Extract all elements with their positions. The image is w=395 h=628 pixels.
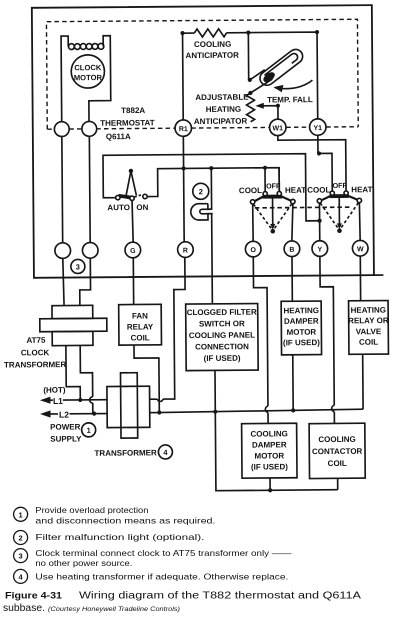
wire Y down [320,256,335,423]
mercury bulb [257,47,305,89]
switch 1 blade [263,195,283,199]
node mercury lead 1 [248,78,252,82]
svg-text:3: 3 [76,262,80,271]
note circle 3 [71,259,85,273]
cooling contactor coil box [309,423,365,478]
resistor cooling anticipator [194,29,226,37]
note 3 [14,549,293,568]
svg-text:CONNECTION: CONNECTION [195,342,249,351]
svg-text:TRANSFORMER: TRANSFORMER [94,448,157,457]
note circle 1 [82,423,96,437]
AT75 secondary right to L2 [80,345,93,413]
node lamp wire junction [209,166,213,170]
svg-text:OFF: OFF [266,181,281,190]
svg-text:THERMOSTAT: THERMOSTAT [100,118,155,127]
switch 2 bar contacts [330,191,334,195]
wire W1 to switch 2 [278,135,346,192]
svg-text:COIL: COIL [131,333,150,342]
wire fan switch AUTO feed [103,154,320,223]
svg-text:W1: W1 [273,125,284,132]
svg-text:COOL: COOL [239,186,262,195]
hop AT75 wire over L1 [90,397,93,403]
fan switch contact common [130,196,134,200]
svg-text:ANTICIPATOR: ANTICIPATOR [186,51,240,60]
svg-text:COIL: COIL [328,459,347,468]
hop Y wire over bus [332,405,335,411]
cooling damper motor box [242,423,297,478]
wire lamp [211,168,212,304]
note 4 [14,569,289,583]
node R wire junction [181,166,185,170]
wiper arrow to W1 [261,106,278,120]
terminal R [178,242,194,258]
fan switch pivot [129,169,133,173]
wire Y1 to switch 2 [318,135,332,191]
system transformer [120,373,137,438]
wire fan ON to R net [147,168,279,197]
svg-text:HEATING: HEATING [283,306,318,315]
node Y junction [317,219,321,223]
svg-text:Clock terminal connect clock t: Clock terminal connect clock to AT75 tra… [35,549,292,558]
svg-text:COOL: COOL [307,185,330,194]
svg-text:1: 1 [19,510,23,519]
outer subbase box [32,5,374,278]
svg-text:L1: L1 [53,396,63,406]
terminal O [245,241,261,257]
clock terminal left [54,122,69,137]
resistor heating anticipator [246,93,254,122]
note 1 [14,506,216,526]
wire fan coil to bus [134,345,159,413]
fan switch dashed blade [134,194,143,197]
node switch1 left feed junction [263,166,267,170]
svg-text:Figure 4-31: Figure 4-31 [5,591,62,601]
svg-text:OFF: OFF [333,181,348,190]
svg-text:TEMP. FALL: TEMP. FALL [267,95,313,104]
wire cooling contactor to bottom bus [337,478,339,489]
wire O [252,204,254,242]
terminal Y [312,241,328,257]
wire heating relay to bus [362,354,364,409]
L2 line [50,413,107,415]
switch 2 actuator [338,198,340,225]
clogged filter box [186,304,259,371]
switch 2 contact COOL [317,199,321,203]
svg-text:CLOCK: CLOCK [74,63,102,72]
svg-text:SWITCH OR: SWITCH OR [199,319,245,328]
svg-text:(IF USED): (IF USED) [251,462,288,471]
fan switch contact ON [143,194,147,198]
svg-text:Wiring diagram of the T882 the: Wiring diagram of the T882 thermostat an… [79,591,361,602]
clock motor coil [69,43,104,49]
wire W down [359,256,361,301]
svg-text:Provide overload protection: Provide overload protection [35,506,148,515]
svg-text:Y1: Y1 [313,125,322,132]
svg-text:DAMPER: DAMPER [284,317,319,326]
switch 1 bar contacts [263,192,267,196]
svg-text:Filter malfunction light (opti: Filter malfunction light (optional). [35,533,204,542]
heat-cool switch 1 feeds [265,168,279,192]
temp fall arrow [275,80,312,89]
fan switch blade [118,194,131,200]
wire R1 top loop [183,32,318,120]
svg-text:(IF USED): (IF USED) [204,354,241,363]
wire heating damper to bus [292,355,294,410]
switch 2 nubs [322,196,357,200]
svg-text:HEAT: HEAT [351,185,372,194]
mercury bulb leads [250,70,273,93]
switch 1 pivot [270,229,275,234]
AT75 secondary left to L1 [66,345,80,400]
note circle 4 [158,445,172,459]
clock motor wire [61,36,111,122]
svg-text:ON: ON [136,203,148,212]
notes [14,506,293,583]
terminal W1 [270,119,287,136]
switch 2 pivot [337,228,342,233]
svg-text:ANTICIPATOR: ANTICIPATOR [194,117,248,126]
caption [3,591,361,615]
note 2 [14,531,205,545]
wire B down [291,257,293,302]
svg-text:Use heating transformer if ade: Use heating transformer if adequate. Oth… [35,573,288,582]
svg-text:FAN: FAN [132,311,148,320]
svg-text:no other power source.: no other power source. [35,559,132,568]
wire clock2 to AT75 [79,258,90,305]
terminal clock 1 [55,243,71,259]
svg-text:subbase.: subbase. [3,603,45,614]
svg-text:2: 2 [19,534,23,543]
svg-text:COOLING: COOLING [194,40,231,49]
clock motor circle [71,55,104,88]
svg-text:HEAT: HEAT [285,186,306,195]
svg-text:L2: L2 [59,410,69,420]
switch 1 actuator line [272,198,274,225]
label T882A THERMOSTAT Q611A [100,106,155,141]
heating damper motor box [281,301,321,355]
terminal W [352,240,368,256]
label adjustable heating anticipator [194,93,250,126]
svg-text:(Courtesy Honeywell Tradeline: (Courtesy Honeywell Tradeline Controls) [48,606,180,613]
terminal Y1 [310,119,327,136]
svg-text:Q611A: Q611A [106,132,131,141]
svg-text:HEATING: HEATING [206,105,241,114]
svg-text:CLOGGED FILTER: CLOGGED FILTER [187,308,257,318]
wire clogged filter to bus [215,369,338,490]
svg-text:MOTOR: MOTOR [287,328,317,337]
wire R1 to R [182,136,185,242]
switch 1 dashed arms [253,204,292,229]
svg-text:R1: R1 [179,126,188,133]
svg-text:2: 2 [199,187,203,196]
wire switch2 COOL to Y [318,203,320,241]
svg-text:G: G [130,248,136,255]
hop R wire over fan wire [157,399,163,401]
svg-text:COIL: COIL [359,338,378,347]
node dots top wire [180,30,319,35]
svg-text:(IF USED): (IF USED) [283,338,320,347]
switch 1 nubs [255,196,291,201]
switch 2 contact HEAT [357,198,361,202]
svg-text:4: 4 [19,572,24,581]
wire R to transformer [148,257,185,399]
svg-text:ADJUSTABLE: ADJUSTABLE [195,93,249,102]
svg-text:COOLING: COOLING [318,435,355,444]
AT75 transformer [52,305,93,318]
secondary bus [150,409,363,412]
switch 1 contact COOL [250,200,254,204]
svg-text:COOLING PANEL: COOLING PANEL [189,331,255,341]
svg-text:RELAY: RELAY [127,322,154,331]
svg-text:1: 1 [87,426,91,435]
switch 1 contact HEAT [291,199,295,203]
L1 line [50,399,107,401]
wire cooling anticipator to mercury [247,33,249,80]
wire B [292,204,294,242]
switch 2 dashed arms [320,203,358,229]
fan switch contact AUTO [116,195,120,199]
terminal R1 [175,120,192,137]
svg-text:TRANSFORMER: TRANSFORMER [4,360,67,369]
filter lamp callout circle 2 [193,183,209,199]
clock terminal right [82,121,97,136]
svg-text:VALVE: VALVE [356,327,382,336]
terminal G [125,242,141,258]
wire common to G [132,200,133,242]
svg-text:MOTOR: MOTOR [74,73,103,82]
wire O down [253,257,268,424]
filter lamp symbol [191,204,213,220]
svg-text:DAMPER: DAMPER [252,440,287,449]
svg-text:AT75: AT75 [26,336,46,345]
node mercury lead 2 [248,91,252,95]
wire clock terminals down [62,136,90,243]
svg-text:Y: Y [317,247,322,254]
svg-text:COOLING: COOLING [250,429,287,438]
svg-text:CLOCK: CLOCK [21,348,50,357]
svg-text:3: 3 [19,552,23,561]
svg-text:POWER: POWER [50,422,81,431]
svg-text:HEATING: HEATING [351,306,386,315]
svg-text:RELAY OR: RELAY OR [348,316,389,325]
switch 2 blade [330,194,349,198]
terminal B [284,241,300,257]
dashed link between switches [255,206,352,209]
wire clock1 to AT75 [63,258,64,305]
fan relay coil box [119,304,162,345]
wire switch2 HEAT to W [358,203,361,241]
terminal clock 2 [82,243,98,259]
thermostat dashed box [46,19,358,129]
svg-text:O: O [250,247,256,254]
svg-text:and disconnection means as req: and disconnection means as required. [35,517,215,526]
svg-text:AUTO: AUTO [107,203,130,212]
svg-text:R: R [183,248,188,255]
svg-text:B: B [289,247,294,254]
svg-text:W: W [357,246,364,253]
svg-text:(HOT): (HOT) [43,386,66,395]
svg-text:MOTOR: MOTOR [255,451,285,460]
svg-text:T882A: T882A [121,106,145,115]
wire G to fan relay coil [132,258,134,305]
fan switch arm triangle [126,171,136,196]
heating relay box [349,301,389,355]
wire cooling damper to bottom bus [269,478,271,490]
svg-text:SUPPLY: SUPPLY [50,434,82,443]
hop O wire over bus [265,406,268,412]
svg-text:CONTACTOR: CONTACTOR [312,447,363,456]
